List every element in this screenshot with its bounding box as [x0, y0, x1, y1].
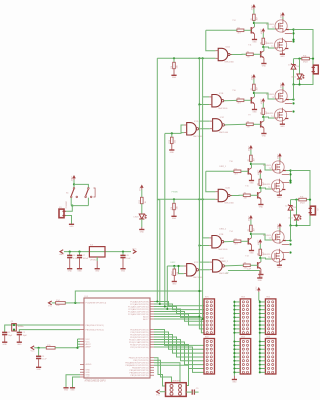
ISP VCC arrow: [157, 390, 160, 394]
svg-text:+BATT: +BATT: [248, 215, 251, 222]
ch1 junction pulldown tap: [173, 57, 175, 59]
svg-text:T15: T15: [245, 186, 248, 188]
svg-text:R3: R3: [260, 42, 262, 44]
svg-text:+BATT: +BATT: [260, 28, 263, 35]
ch2 wire cell4 node to N-FET2 gate: [260, 258, 271, 259]
ch1 cell2 resistor R3 pull-up: [262, 38, 265, 44]
svg-text:R8: R8: [247, 122, 249, 124]
power rail wire: [64, 251, 131, 253]
svg-text:4K7: 4K7: [247, 127, 250, 129]
svg-text:VCC: VCC: [31, 350, 36, 352]
svg-text:GND: GND: [280, 126, 285, 128]
svg-text:10K: 10K: [177, 64, 179, 68]
ch2 P-MOSFET2 IRF4905: [272, 231, 284, 243]
C1 ground: [4, 335, 6, 342]
ch1 zener to rail2 wire: [293, 69, 295, 84]
power LED supply arrow: [140, 185, 144, 188]
svg-text:T11: T11: [248, 45, 251, 47]
ch2 wire cell1 node to P-FET1 gate: [251, 164, 272, 170]
ch1 wire gate D in1: [181, 125, 184, 133]
svg-text:GND: GND: [277, 267, 282, 269]
svg-text:IC1B: IC1B: [219, 93, 224, 95]
ch1 cell3 wire supply to resistor: [253, 79, 255, 84]
svg-text:GND: GND: [172, 218, 177, 220]
svg-text:16MHz: 16MHz: [18, 326, 24, 328]
svg-text:ADC7: ADC7: [143, 318, 149, 321]
VCC pins rail: [77, 339, 79, 348]
ch2 cell4 transistor T13: [257, 262, 259, 268]
ch1 cell2 emitter to ground wire: [263, 58, 265, 64]
ch2 rail2 to bridge2 output: [290, 226, 292, 241]
ch2 pulldown resistor on DIR line: [173, 266, 175, 269]
ch1 indicator LED: [297, 74, 302, 79]
ch1 cell2 wire base resistor to base: [253, 53, 260, 55]
svg-text:IC1D: IC1D: [194, 121, 199, 123]
svg-text:AREF: AREF: [86, 346, 92, 349]
ch2 LED branch wire: [296, 200, 298, 215]
ch1 bridge1 FET pin stubs: [285, 32, 292, 34]
wire power connector pin2 to ground: [66, 216, 72, 225]
svg-text:+BATT: +BATT: [257, 239, 260, 246]
ch2 cell2 wire supply to resistor: [259, 174, 261, 179]
bus wire gate feed 1 down to MCU: [198, 121, 200, 316]
svg-text:+BATT: +BATT: [280, 12, 283, 19]
svg-text:PD7(OC2/PCINT31): PD7(OC2/PCINT31): [130, 347, 148, 349]
wires MCU group3 to ISP header: [154, 358, 166, 386]
ch1 wire cell2 node to N-FET1 gate: [263, 47, 274, 48]
power LED ground: [141, 219, 143, 227]
svg-text:+BATT: +BATT: [257, 169, 260, 176]
ch2 cell3 resistor R5 pull-up: [250, 225, 253, 231]
ch2 junction DIR pulldown tap: [173, 265, 175, 267]
wire component stub right: [194, 391, 198, 393]
ch2 cell1 ground: [249, 180, 254, 182]
svg-text:C1: C1: [8, 332, 10, 334]
svg-text:+BATT: +BATT: [71, 175, 74, 182]
ch1 cell1 emitter to ground wire: [254, 34, 256, 40]
svg-text:10K: 10K: [56, 305, 60, 307]
ch1 cell4 wire supply to resistor: [262, 103, 264, 108]
svg-text:IC1A: IC1A: [225, 46, 230, 49]
ch2 cell4 ground: [258, 274, 263, 276]
ch2 cell1 wire base resistor to base: [241, 170, 248, 172]
crystal Q1: [12, 324, 17, 331]
svg-text:AGND: AGND: [86, 363, 92, 366]
svg-text:GND: GND: [280, 56, 285, 58]
wire R12 to LED3: [141, 204, 143, 214]
ch1 DIR pulldown ground: [171, 144, 173, 150]
svg-text:GND: GND: [170, 152, 175, 154]
junction reset bus tap: [198, 290, 200, 292]
ch1 cell3 resistor R5 pull-up: [253, 84, 256, 90]
svg-text:R3: R3: [257, 183, 259, 185]
ch1 wire to gate B in1: [203, 58, 210, 97]
ch1 P-MOSFET2 IRF4905: [275, 90, 287, 102]
junction reset net: [74, 302, 76, 304]
supply arrow +BATT left: [60, 250, 63, 254]
svg-text:4K7: 4K7: [234, 244, 237, 246]
ch2 pulldown resistor on PWM line: [173, 199, 175, 203]
svg-text:GND: GND: [70, 390, 75, 392]
ch1 P-MOSFET IRF4905: [275, 20, 287, 32]
capacitor C2: [17, 331, 22, 333]
ch1 bridge2 +BATT supply arrow: [281, 82, 285, 85]
svg-text:LED3: LED3: [134, 216, 139, 218]
ch1 bridge2 FET pin stubs: [285, 102, 292, 104]
power connector ground: [69, 223, 74, 225]
ch2 cell4 pull-up supply arrow: [259, 239, 263, 242]
ch1 cell4 pull-up supply arrow: [262, 98, 266, 101]
ch2 P-MOSFET IRF4905: [272, 161, 284, 173]
ch1 cell1 node dot: [253, 22, 255, 24]
ch2 cell4 wire base resistor to base: [250, 264, 257, 266]
voltage regulator IC5: [89, 247, 105, 257]
svg-text:PB7(SCK/PCINT15): PB7(SCK/PCINT15): [130, 375, 148, 377]
ch2 wire to gate B in2: [199, 199, 209, 245]
wire to switch S1B: [74, 184, 88, 187]
wire switch to power connector pin1: [66, 206, 73, 212]
ch2 wire gate A out to cell2: [230, 194, 243, 196]
ch1 nand gate IC1A: [218, 48, 228, 60]
svg-text:GND: GND: [262, 65, 267, 67]
ch2 shunt resistor R11: [299, 198, 307, 201]
ch1 N-MOSFET BUZ11: [275, 39, 287, 51]
ch2 wire to gate C in1: [199, 246, 209, 263]
svg-text:C2: C2: [23, 332, 25, 334]
svg-text:GND: GND: [232, 381, 237, 383]
svg-text:74HC1G00: 74HC1G00: [224, 203, 233, 205]
ch2 bridge1 +BATT supply arrow: [278, 153, 282, 156]
wire XTAL1 line: [5, 325, 80, 332]
header connector SV5 upper: [265, 299, 276, 335]
svg-text:4K7: 4K7: [234, 174, 237, 176]
svg-text:ATMEGA8535-16PU: ATMEGA8535-16PU: [85, 379, 106, 382]
svg-text:VCC: VCC: [133, 248, 138, 250]
ch2 cell4 wire resistor to node: [259, 255, 261, 258]
ch2 bridge1 output tie wire: [286, 171, 291, 183]
svg-text:+BATT: +BATT: [251, 4, 254, 11]
svg-text:R9: R9: [171, 207, 173, 209]
ch2 wire cell1 base line: [206, 170, 234, 172]
C6 ground: [69, 258, 71, 269]
svg-text:DIR2_1: DIR2_1: [220, 166, 226, 168]
resistor R15: [46, 347, 55, 350]
ISP right pin component: [191, 390, 193, 395]
ch1 cell1 wire supply to resistor: [253, 9, 255, 14]
ch2 cell1 pull-up supply arrow: [249, 145, 253, 148]
svg-text:PWM2_2: PWM2_2: [220, 261, 228, 263]
ch1 wire cell1 node to P-FET1 gate: [254, 23, 275, 29]
svg-text:GND: GND: [259, 206, 264, 208]
ch2 output rail2 to motor pin2: [291, 213, 311, 226]
IC4 ground symbol 1: [63, 387, 68, 389]
ch1 wire gate C out to cell4 base R: [225, 123, 247, 126]
ch1 pulldown ground: [173, 69, 175, 76]
svg-text:VCC: VCC: [156, 394, 161, 396]
ch2 DIR input line to gate D in1: [167, 265, 184, 267]
ch1 wire to gate C in1: [199, 105, 209, 122]
svg-text:GND: GND: [262, 135, 267, 137]
svg-text:74HC1G00: 74HC1G00: [219, 132, 228, 134]
header connector SV2 lower: [204, 339, 215, 375]
svg-text:VCC: VCC: [256, 286, 258, 291]
gate power pin IC2P wire: [228, 270, 260, 272]
connector GND rail: [233, 301, 235, 377]
ch1 cell3 transistor T10: [250, 97, 252, 103]
ch1 cell2 pull-up supply arrow: [262, 28, 266, 31]
ch1 cell4 transistor T9: [260, 121, 262, 127]
svg-text:+BATT: +BATT: [277, 223, 280, 230]
ch1 cell4 wire resistor to node: [262, 114, 264, 117]
svg-text:R1: R1: [248, 159, 250, 161]
ch2 cell2 emitter to ground wire: [260, 199, 262, 205]
ch1 pulldown resistor on PWM line: [173, 58, 175, 62]
ch2 bridge2 FET pin stubs: [282, 243, 289, 245]
wire S1B throw down: [87, 198, 89, 206]
supply arrow VCC right: [133, 250, 136, 254]
connector rail ground: [233, 376, 235, 380]
svg-text:T16: T16: [229, 161, 232, 163]
ch2 cell2 node dot: [259, 187, 261, 189]
bus wire PWM1 vertical: [156, 58, 158, 301]
svg-text:GND: GND: [172, 283, 177, 285]
switch S1B: [88, 188, 90, 190]
junction C3 tap: [38, 347, 40, 349]
C3 ground: [38, 359, 40, 368]
capacitor C1: [2, 331, 7, 333]
ch2 zener diode: [288, 205, 293, 207]
ch2 nand gate IC2D: [187, 264, 197, 276]
junction below switch: [71, 205, 73, 207]
wire reset to ISP bus: [75, 291, 202, 303]
ch2 cell2 transistor T15: [257, 192, 259, 198]
header connector SV6 lower: [265, 339, 276, 375]
svg-text:GND: GND: [86, 377, 91, 379]
svg-text:SV4: SV4: [241, 336, 245, 338]
regulator ground stub: [96, 257, 98, 261]
svg-text:R6: R6: [237, 98, 239, 100]
junction C6: [69, 251, 71, 253]
ch2 wire supply to P-FET2: [279, 228, 281, 231]
svg-text:10pF: 10pF: [8, 335, 13, 337]
svg-text:GND: GND: [95, 271, 100, 273]
svg-text:PB6(XTAL1/TOSC1): PB6(XTAL1/TOSC1): [86, 324, 105, 327]
svg-text:4K7: 4K7: [237, 103, 240, 105]
ch2 wire gate D out to gate C in2: [200, 269, 210, 271]
ch1 junction bus1: [198, 57, 200, 59]
svg-text:0.1uF: 0.1uF: [42, 359, 48, 361]
ch2 wire gate C out to cell4 base R: [225, 264, 244, 267]
ch1 LED to rail2 wire: [299, 79, 301, 85]
svg-text:R12: R12: [139, 200, 141, 203]
svg-text:C6: C6: [73, 255, 75, 257]
svg-text:74HC1G00: 74HC1G00: [193, 277, 202, 279]
ch1 cell2 transistor T11: [260, 51, 262, 57]
svg-text:C7: C7: [83, 255, 85, 257]
ch1 cell4 resistor R7 pull-up: [262, 108, 265, 114]
staircase wires MCU group2 to lower connector: [154, 330, 204, 346]
ch2 cell4 node dot: [259, 257, 261, 259]
wire S1A throw down: [70, 198, 72, 206]
svg-text:GND: GND: [68, 271, 73, 273]
ch2 wire to gate B in1: [203, 199, 210, 238]
ch1 nand gate IC1C: [213, 119, 223, 131]
junction switch top: [73, 183, 75, 185]
ch1 cell4 emitter to ground wire: [263, 128, 265, 134]
svg-text:+5V: +5V: [225, 272, 229, 274]
svg-text:R7: R7: [260, 112, 262, 114]
power switch +BATT arrow: [72, 175, 76, 178]
svg-text:+BATT: +BATT: [280, 82, 283, 89]
ch2 cell4 wire supply to resistor: [259, 244, 261, 249]
svg-text:T10: T10: [232, 90, 235, 92]
svg-text:LED1: LED1: [291, 76, 296, 78]
svg-text:AVCC: AVCC: [86, 343, 92, 346]
ch1 rail2 to bridge2 output: [293, 85, 295, 100]
ch2 cell1 wire resistor to node: [250, 161, 252, 164]
ch2 cell1 node dot: [250, 163, 252, 165]
svg-text:PB7(XTAL2/TOSC2): PB7(XTAL2/TOSC2): [86, 328, 105, 331]
ch2 cell3 wire base resistor to base: [241, 240, 248, 242]
svg-text:+BATT: +BATT: [248, 145, 251, 152]
wire VCC arrow to R15: [34, 347, 46, 349]
svg-text:POWER: POWER: [66, 201, 68, 209]
ch1 cell4 base resistor R8: [246, 123, 253, 126]
ch1 wire vertical to gate A in1: [206, 30, 216, 50]
svg-text:SV3: SV3: [241, 297, 245, 299]
ch2 nand gate IC2C: [213, 260, 223, 272]
resistor R14: [56, 302, 66, 305]
ch1 cell3 pull-up supply arrow: [252, 74, 256, 77]
ch1 wire gate B out to cell3 base R: [224, 99, 237, 101]
ch1 nand gate IC1D: [187, 123, 197, 135]
microcontroller IC4 body: [84, 298, 150, 378]
ch1 cell3 wire resistor to node: [253, 90, 255, 93]
ch2 bridge2 +BATT supply arrow: [278, 223, 282, 226]
wire VCC to ISP: [160, 391, 166, 393]
ch1 cell1 resistor R1 pull-up: [253, 14, 256, 20]
ch1 cell2 ground: [261, 63, 266, 65]
svg-text:IC2P: IC2P: [247, 268, 252, 270]
ch2 cell3 transistor T14: [247, 238, 249, 244]
wire VCC to R14: [52, 302, 56, 304]
svg-text:100nF: 100nF: [83, 258, 89, 260]
ch2 cell1 resistor R1 pull-up: [250, 155, 253, 161]
capacitor C8: [122, 252, 124, 256]
svg-text:PWM0: PWM0: [172, 192, 179, 194]
ch1 cell1 wire base resistor to base: [244, 29, 251, 31]
svg-text:4K7: 4K7: [244, 198, 247, 200]
ch2 bridge1 N-FET source ground: [278, 193, 280, 195]
ch1 bridge1 output tie wire: [289, 30, 294, 42]
ch1 junction DIR pulldown tap: [171, 132, 173, 134]
svg-text:SV2: SV2: [205, 336, 209, 338]
ch1 pulldown resistor on DIR line: [171, 133, 173, 137]
ch1 zener branch wire: [293, 59, 295, 64]
wire R14 to reset pin: [65, 302, 80, 304]
wire R15 to VCC pins rail: [55, 347, 77, 349]
ch1 output rail1: [294, 58, 302, 60]
ch2 motor connector: [310, 206, 315, 215]
C2 ground: [18, 335, 20, 342]
bus wire DIR1 vertical: [164, 134, 166, 307]
ch1 output rail2 to motor pin2: [294, 72, 314, 85]
svg-text:GND: GND: [121, 271, 126, 273]
switch S1B bracket: [94, 188, 96, 197]
svg-text:4K7: 4K7: [254, 228, 256, 231]
svg-text:R2: R2: [237, 28, 239, 30]
capacitor C6: [69, 252, 71, 256]
ch2 cell2 ground: [258, 204, 263, 206]
svg-text:SV6: SV6: [266, 336, 270, 338]
svg-text:4K7: 4K7: [257, 87, 259, 90]
svg-text:+BATT: +BATT: [260, 98, 263, 105]
ch1 cell3 node dot: [253, 92, 255, 94]
ch1 bridge1 N-FET source ground: [281, 52, 283, 54]
resistor R12: [141, 197, 144, 203]
wire VCC to R12: [141, 190, 143, 198]
ch2 cell3 node dot: [250, 233, 252, 235]
ch2 cell1 base resistor R2: [234, 170, 241, 173]
IC4 ground pins wires: [66, 375, 80, 388]
bus wire PWM2 vertical: [159, 200, 161, 304]
ch2 cell1 emitter to ground wire: [251, 175, 253, 181]
ch1 wire supply to P-FET1: [282, 17, 284, 20]
ch2 cell4 base resistor R8: [243, 264, 250, 267]
wire joining switch throws: [71, 205, 88, 207]
ch1 LED branch wire: [299, 59, 301, 74]
C8 ground: [122, 258, 124, 269]
ch1 cell1 wire resistor to node: [253, 20, 255, 23]
svg-text:IC1C: IC1C: [220, 117, 225, 119]
svg-text:T12: T12: [232, 20, 235, 22]
ch2 PWM input line: [157, 198, 215, 200]
ch1 cell4 wire base resistor to base: [253, 123, 260, 125]
svg-text:GND: GND: [277, 197, 282, 199]
ch1 cell1 ground: [252, 39, 257, 41]
C7 ground: [79, 258, 81, 269]
ISP header SV4: [166, 383, 187, 397]
header connector SV3 upper: [240, 299, 251, 335]
ch1 wire cell4 node to N-FET2 gate: [263, 117, 274, 118]
ch2 cell4 resistor R7 pull-up: [259, 249, 262, 255]
ch1 cell1 base resistor R2: [237, 29, 244, 32]
ch1 cell2 wire supply to resistor: [262, 33, 264, 38]
svg-text:+BATT: +BATT: [277, 153, 280, 160]
ch2 bridge2 N-FET source ground: [278, 263, 280, 265]
ch2 LED to rail2 wire: [296, 220, 298, 226]
svg-text:T14: T14: [229, 231, 232, 233]
regulator ground: [96, 261, 98, 269]
ch1 cell2 wire resistor to node: [262, 44, 264, 47]
ch1 wire gate D out to gate C in2: [200, 128, 210, 130]
svg-text:R1: R1: [251, 18, 253, 20]
ch1 wire cell3 node to P-FET2 gate: [254, 93, 275, 99]
ch1 wire shunt to motor node: [309, 58, 313, 60]
svg-text:R8: R8: [244, 263, 246, 265]
ch2 wire vertical to gate A in1: [206, 171, 216, 191]
ch1 zener diode: [291, 64, 296, 66]
svg-text:GND: GND: [258, 280, 263, 282]
svg-text:R7: R7: [257, 253, 259, 255]
svg-text:R10: R10: [169, 140, 171, 143]
header connector SV1 upper: [204, 299, 215, 335]
ch2 junction pulldown tap: [173, 198, 175, 200]
IC4 ground symbol 2: [70, 387, 75, 389]
ch2 junction bus1: [198, 198, 200, 200]
ch2 cell2 resistor R3 pull-up: [259, 179, 262, 185]
svg-text:4K7: 4K7: [237, 33, 240, 35]
